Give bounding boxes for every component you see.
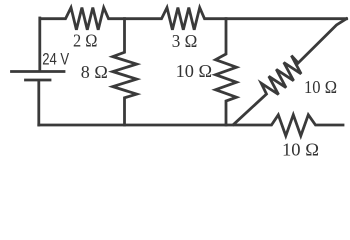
resistor R-10ohm vertical branch: [216, 19, 237, 125]
diagonal wire with resistor R-10ohm diagonal: [234, 19, 347, 125]
wire bottom with resistor R-10ohm horizontal: [39, 115, 343, 136]
svg-text:8 Ω: 8 Ω: [81, 62, 108, 82]
svg-text:2 Ω: 2 Ω: [73, 31, 98, 51]
svg-text:10 Ω: 10 Ω: [304, 77, 337, 97]
svg-text:3 Ω: 3 Ω: [172, 31, 198, 51]
battery V1 top plate (long): [12, 70, 65, 73]
svg-text:10 Ω: 10 Ω: [176, 61, 213, 81]
resistor R-8ohm vertical branch: [113, 19, 137, 125]
wire top with resistor R-2ohm and R-3ohm: [40, 8, 347, 30]
svg-text:24 V: 24 V: [42, 51, 69, 69]
circuit schematic: [0, 0, 350, 165]
wire left bottom: [37, 81, 40, 126]
wire left top: [38, 18, 41, 70]
svg-text:10 Ω: 10 Ω: [282, 140, 319, 160]
battery V1 bottom plate (short): [26, 79, 51, 82]
